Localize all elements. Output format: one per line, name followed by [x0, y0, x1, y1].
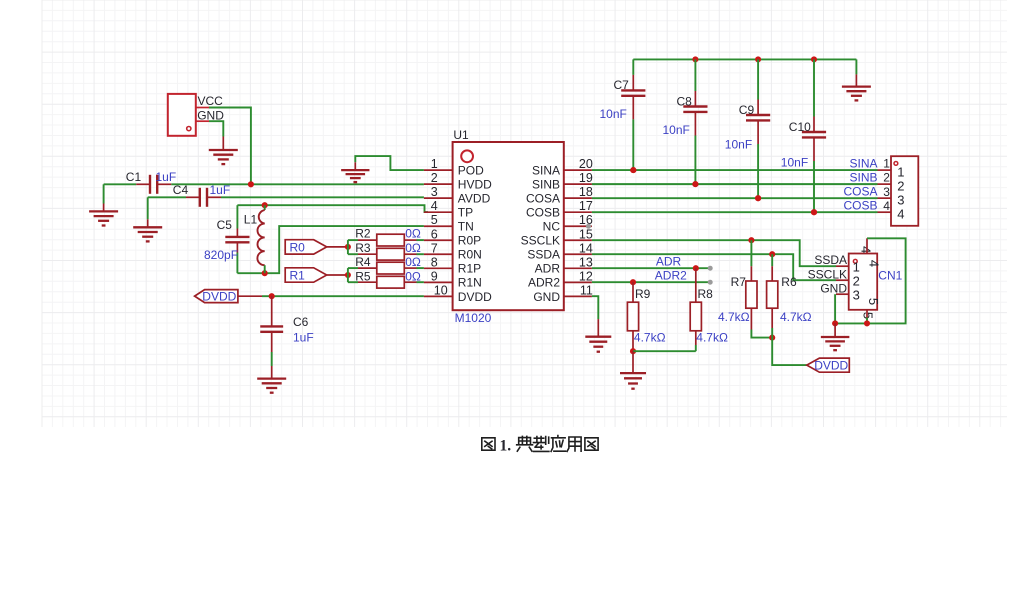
capacitor C4 — [173, 183, 230, 207]
svg-text:5: 5 — [431, 213, 438, 227]
wire DVDD net — [262, 295, 424, 297]
resistor R6 — [767, 254, 812, 328]
svg-text:7: 7 — [431, 241, 438, 255]
junction COSA — [755, 195, 761, 201]
wire TN net — [237, 226, 424, 273]
svg-text:R0N: R0N — [458, 248, 482, 262]
svg-text:SINB: SINB — [849, 171, 877, 185]
ground (AVDD left) — [133, 219, 162, 241]
label SINA — [849, 157, 890, 171]
ground (POD) — [341, 162, 369, 182]
svg-text:2: 2 — [883, 171, 890, 185]
svg-text:C4: C4 — [173, 183, 189, 197]
svg-text:3: 3 — [897, 193, 904, 208]
svg-text:3: 3 — [853, 287, 860, 302]
caption 图 1.典型应用图 — [482, 436, 598, 455]
junction C8/SINB — [692, 181, 698, 187]
svg-text:SINB: SINB — [532, 178, 560, 192]
svg-text:0Ω: 0Ω — [405, 255, 421, 269]
op-amp U1 (M1020 IC) — [424, 128, 593, 325]
svg-text:TP: TP — [458, 206, 473, 220]
junction COSB — [811, 209, 817, 215]
svg-text:5: 5 — [866, 298, 881, 305]
svg-text:20: 20 — [579, 157, 593, 171]
svg-text:R1N: R1N — [458, 276, 482, 290]
svg-text:820pF: 820pF — [204, 248, 238, 262]
capacitor C8 — [663, 59, 708, 184]
label COSA — [843, 185, 890, 199]
svg-text:R2: R2 — [355, 227, 371, 241]
label COSB — [843, 199, 890, 213]
resistor R8 — [690, 268, 728, 345]
svg-text:C6: C6 — [293, 315, 309, 329]
wire R9/R8 bottom — [633, 345, 696, 351]
svg-text:0Ω: 0Ω — [405, 241, 421, 255]
connector P1 — [891, 156, 918, 226]
no-connect marker ADR2 — [708, 280, 713, 285]
svg-text:R9: R9 — [635, 287, 651, 301]
svg-text:4.7kΩ: 4.7kΩ — [634, 331, 666, 345]
inductor L1 — [244, 205, 265, 273]
svg-text:CN1: CN1 — [878, 269, 902, 283]
label SINB — [849, 171, 890, 185]
svg-text:GND: GND — [820, 281, 847, 295]
svg-text:POD: POD — [458, 164, 484, 178]
svg-text:4: 4 — [431, 199, 438, 213]
svg-text:DVDD: DVDD — [202, 290, 236, 304]
ground (top right) — [842, 59, 871, 100]
svg-text:DVDD: DVDD — [814, 359, 848, 373]
resistor R9 — [627, 282, 665, 351]
svg-text:COSB: COSB — [843, 199, 877, 213]
wire AVDD net — [148, 197, 424, 219]
junction R9 bottom — [630, 348, 636, 354]
svg-text:U1: U1 — [453, 128, 469, 142]
svg-text:1.: 1. — [500, 437, 512, 454]
junction C9/COSA — [755, 195, 761, 201]
junction R8 top — [693, 265, 699, 271]
svg-text:COSB: COSB — [526, 206, 560, 220]
svg-text:ADR: ADR — [535, 262, 561, 276]
wire TP net — [237, 205, 428, 212]
svg-text:10nF: 10nF — [725, 137, 752, 151]
wire SSDA net — [592, 254, 849, 280]
wire COSB net — [592, 211, 891, 213]
svg-text:12: 12 — [579, 269, 593, 283]
svg-text:4.7kΩ: 4.7kΩ — [780, 310, 812, 324]
wire R6 to DVDD — [772, 328, 807, 365]
svg-text:10nF: 10nF — [663, 123, 690, 137]
svg-text:M1020: M1020 — [455, 311, 492, 325]
svg-text:3: 3 — [431, 185, 438, 199]
junction CN1 pin5 — [864, 320, 870, 326]
svg-text:4: 4 — [858, 246, 873, 253]
svg-text:13: 13 — [579, 255, 593, 269]
svg-text:C10: C10 — [789, 120, 811, 134]
wire SINB net — [592, 183, 891, 185]
svg-text:HVDD: HVDD — [458, 178, 492, 192]
svg-text:5: 5 — [861, 312, 876, 319]
svg-text:R4: R4 — [355, 255, 371, 269]
no-connect marker NC pin16 — [586, 224, 591, 229]
svg-text:TN: TN — [458, 220, 474, 234]
junction R9 top — [630, 279, 636, 285]
svg-text:10nF: 10nF — [781, 156, 808, 170]
junction R0 node — [345, 244, 351, 250]
svg-text:1uF: 1uF — [210, 183, 231, 197]
svg-text:R1P: R1P — [458, 262, 481, 276]
wire ADR2 net — [592, 281, 710, 283]
svg-text:NC: NC — [543, 220, 561, 234]
capacitor C1 — [126, 170, 176, 194]
svg-text:2: 2 — [853, 273, 860, 288]
ground (HVDD left) — [89, 204, 118, 226]
label ADR — [656, 254, 682, 268]
no-connect marker ADR — [708, 266, 713, 271]
port DVDD (left) — [195, 290, 262, 304]
junction R6 top — [769, 251, 775, 257]
svg-text:10: 10 — [434, 283, 448, 297]
junction C6 — [269, 293, 275, 299]
label ADR2 — [655, 269, 687, 283]
svg-text:19: 19 — [579, 171, 593, 185]
svg-text:9: 9 — [431, 269, 438, 283]
capacitor C6 — [260, 296, 313, 378]
svg-text:SINA: SINA — [532, 164, 560, 178]
grid background — [42, 0, 1007, 427]
junction SINA — [630, 167, 636, 173]
svg-text:2: 2 — [431, 171, 438, 185]
svg-text:C1: C1 — [126, 170, 142, 184]
junction rail C10 — [811, 56, 817, 62]
wire top rail — [633, 58, 856, 60]
svg-text:4: 4 — [897, 207, 904, 222]
svg-text:1uF: 1uF — [293, 330, 314, 344]
junction R1 node — [345, 272, 351, 278]
ground (CN1) — [821, 323, 850, 350]
wire GND net — [592, 296, 598, 319]
capacitor C5 — [204, 205, 250, 273]
svg-text:ADR: ADR — [656, 254, 682, 268]
svg-text:6: 6 — [431, 227, 438, 241]
svg-text:COSA: COSA — [526, 192, 560, 206]
svg-text:4.7kΩ: 4.7kΩ — [696, 331, 728, 345]
connector CN1 — [849, 238, 903, 319]
svg-text:SSCLK: SSCLK — [521, 234, 560, 248]
junction L1 top — [262, 202, 268, 208]
svg-text:C7: C7 — [614, 78, 630, 92]
svg-text:0Ω: 0Ω — [405, 270, 421, 284]
svg-text:C5: C5 — [217, 218, 233, 232]
svg-text:10nF: 10nF — [600, 107, 627, 121]
wire SINA net — [592, 169, 891, 171]
wire ADR net — [592, 267, 710, 269]
svg-text:C9: C9 — [739, 103, 755, 117]
svg-text:GND: GND — [533, 290, 560, 304]
capacitor C7 — [600, 59, 646, 170]
svg-text:R0P: R0P — [458, 234, 481, 248]
wire SSCLK net — [592, 240, 849, 266]
svg-text:R0: R0 — [290, 241, 306, 255]
wire HVDD net — [104, 184, 424, 203]
svg-text:COSA: COSA — [843, 185, 877, 199]
svg-text:4.7kΩ: 4.7kΩ — [718, 310, 750, 324]
svg-text:3: 3 — [883, 185, 890, 199]
svg-text:DVDD: DVDD — [458, 290, 492, 304]
ground (C6) — [257, 379, 286, 393]
resistor R3 — [355, 241, 424, 260]
port DVDD (right) — [807, 358, 850, 372]
wire R1 node — [348, 268, 358, 282]
junction rail C8 — [692, 56, 698, 62]
wire POD net — [355, 156, 424, 170]
svg-text:15: 15 — [579, 227, 593, 241]
svg-text:11: 11 — [580, 283, 593, 297]
junction rail C9 — [755, 56, 761, 62]
junction C7/SINA — [630, 167, 636, 173]
svg-text:14: 14 — [579, 241, 593, 255]
svg-text:8: 8 — [431, 255, 438, 269]
capacitor C10 — [781, 59, 826, 212]
capacitor C9 — [725, 59, 770, 198]
ground (supply box) — [209, 137, 238, 165]
svg-text:1: 1 — [883, 157, 890, 171]
svg-text:1: 1 — [431, 157, 438, 171]
svg-text:AVDD: AVDD — [458, 192, 491, 206]
svg-text:R1: R1 — [290, 269, 306, 283]
resistor R5 — [355, 270, 424, 288]
port R0 — [285, 240, 348, 255]
ground (U1 GND) — [585, 319, 611, 352]
wire COSA net — [592, 197, 891, 199]
svg-text:R7: R7 — [731, 275, 747, 289]
svg-text:17: 17 — [579, 199, 593, 213]
svg-text:VCC: VCC — [198, 94, 224, 108]
svg-text:R5: R5 — [355, 270, 371, 284]
svg-text:1: 1 — [853, 259, 860, 274]
svg-text:C8: C8 — [677, 94, 693, 108]
junction R7 top — [748, 237, 754, 243]
supply box VCC/GND — [168, 94, 224, 136]
junction C10/COSB — [811, 209, 817, 215]
wire VCC to HVDD net — [209, 108, 251, 185]
svg-text:ADR2: ADR2 — [655, 269, 687, 283]
port R1 — [285, 268, 348, 283]
ground (R9) — [620, 351, 646, 389]
svg-text:SSCLK: SSCLK — [808, 267, 847, 281]
wire CN1 GND pin — [835, 294, 849, 323]
label SSCLK — [808, 267, 847, 281]
junction R7/R6 bottom — [769, 335, 775, 341]
junction L1 bottom — [262, 270, 268, 276]
svg-text:SINA: SINA — [849, 157, 877, 171]
resistor R4 — [355, 255, 424, 274]
junction VCC/HVDD — [248, 181, 254, 187]
svg-text:R8: R8 — [698, 287, 714, 301]
svg-text:L1: L1 — [244, 213, 258, 227]
svg-text:1: 1 — [897, 165, 904, 180]
wire CN1 loop — [835, 238, 906, 323]
svg-text:18: 18 — [579, 185, 593, 199]
resistor R2 — [355, 227, 424, 246]
svg-text:R3: R3 — [355, 241, 371, 255]
wire R0 node — [348, 240, 358, 254]
wire GND pin to ground — [209, 121, 223, 136]
label GND — [820, 281, 847, 295]
svg-text:4: 4 — [883, 199, 890, 213]
svg-text:0Ω: 0Ω — [405, 227, 421, 241]
label SSDA — [814, 253, 847, 267]
svg-text:SSDA: SSDA — [527, 248, 560, 262]
svg-text:2: 2 — [897, 179, 904, 194]
svg-text:R6: R6 — [781, 275, 797, 289]
svg-text:4: 4 — [867, 260, 882, 267]
resistor R7 — [718, 240, 772, 337]
svg-text:ADR2: ADR2 — [528, 276, 560, 290]
junction CN1 gnd — [832, 320, 838, 326]
svg-text:SSDA: SSDA — [814, 253, 847, 267]
junction SINB — [692, 181, 698, 187]
